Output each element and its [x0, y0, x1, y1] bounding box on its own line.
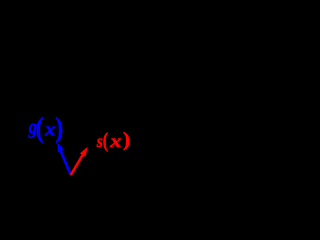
svg-text:x: x: [109, 132, 121, 151]
svg-text:s: s: [96, 131, 103, 151]
vector g arrowhead (blue): [57, 142, 64, 152]
svg-text:x: x: [44, 119, 56, 140]
label g(x) (blue math label): [28, 112, 63, 143]
vector s arrow shaft (red): [71, 154, 84, 176]
svg-text:(: (: [103, 129, 108, 153]
svg-text:(: (: [36, 112, 44, 143]
svg-text:): ): [55, 112, 63, 143]
vector g arrow shaft (blue): [60, 150, 71, 175]
svg-text:): ): [123, 128, 130, 151]
label s(x) (red math label): [96, 128, 130, 153]
vector s arrowhead (red): [80, 147, 88, 157]
